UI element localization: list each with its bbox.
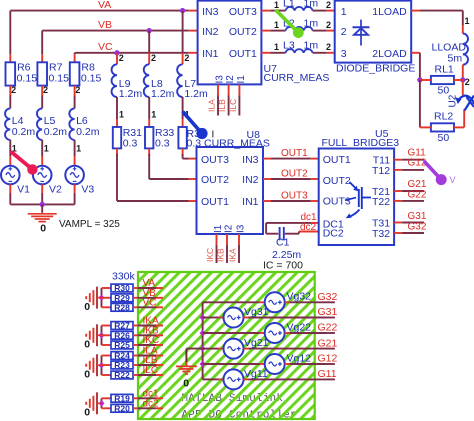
svg-text:2: 2 [465, 77, 470, 87]
svg-text:2: 2 [11, 85, 16, 95]
svg-text:OUT3: OUT3 [229, 6, 257, 18]
svg-text:3: 3 [341, 48, 347, 60]
svg-text:dc2: dc2 [143, 398, 160, 409]
svg-text:G12: G12 [318, 353, 338, 365]
svg-text:ILB: ILB [217, 99, 227, 112]
svg-text:I2: I2 [224, 224, 235, 233]
svg-text:Vg12: Vg12 [287, 352, 312, 364]
svg-text:R22: R22 [114, 370, 130, 380]
svg-text:IN2: IN2 [242, 174, 259, 186]
svg-text:R23: R23 [114, 360, 130, 370]
svg-text:G22: G22 [408, 190, 427, 201]
svg-text:1LOAD: 1LOAD [372, 6, 407, 18]
svg-text:0: 0 [84, 368, 90, 380]
svg-text:IN2: IN2 [202, 26, 219, 38]
svg-text:DC2: DC2 [323, 227, 344, 239]
svg-text:IN3: IN3 [242, 154, 259, 166]
svg-text:OUT1: OUT1 [201, 196, 229, 208]
svg-text:2: 2 [326, 42, 331, 52]
svg-text:IN3: IN3 [202, 6, 219, 18]
svg-text:0.2m: 0.2m [76, 126, 100, 138]
svg-text:1.2m: 1.2m [119, 88, 143, 100]
svg-text:FULL_BRIDGE3: FULL_BRIDGE3 [322, 137, 400, 149]
svg-text:2: 2 [341, 26, 347, 38]
svg-text:1: 1 [465, 16, 470, 26]
svg-text:0.15: 0.15 [81, 73, 102, 85]
svg-text:2: 2 [43, 85, 48, 95]
svg-text:V: V [450, 175, 456, 185]
svg-text:I2: I2 [225, 75, 236, 84]
svg-text:L3: L3 [283, 40, 295, 52]
svg-text:330k: 330k [112, 271, 136, 283]
svg-text:Vg31: Vg31 [244, 306, 269, 318]
svg-text:RL2: RL2 [434, 111, 453, 123]
svg-text:G21: G21 [318, 337, 338, 349]
svg-text:1.2m: 1.2m [184, 88, 208, 100]
svg-text:ILC: ILC [228, 99, 238, 112]
svg-text:T12: T12 [372, 165, 390, 177]
svg-text:OUT2: OUT2 [323, 175, 351, 187]
svg-text:1m: 1m [304, 18, 319, 30]
svg-text:OUT3: OUT3 [323, 196, 351, 208]
svg-text:V2: V2 [49, 184, 62, 196]
svg-text:1: 1 [119, 110, 124, 120]
svg-text:Vg32: Vg32 [287, 291, 312, 303]
svg-text:C1: C1 [276, 236, 290, 248]
svg-text:2: 2 [151, 53, 156, 63]
svg-text:OUT1: OUT1 [229, 48, 257, 60]
svg-text:2: 2 [326, 0, 331, 10]
svg-text:VAMPL = 325: VAMPL = 325 [59, 219, 120, 230]
svg-text:VA: VA [98, 0, 111, 11]
svg-text:1: 1 [44, 144, 49, 154]
svg-text:L1: L1 [283, 0, 295, 10]
svg-text:2: 2 [184, 53, 189, 63]
svg-text:T22: T22 [372, 196, 390, 208]
svg-text:50: 50 [438, 132, 450, 144]
svg-text:V1: V1 [17, 184, 30, 196]
svg-text:OUT2: OUT2 [229, 26, 257, 38]
svg-text:IKA: IKA [228, 248, 238, 262]
svg-text:DIODE_BRIDGE: DIODE_BRIDGE [336, 63, 415, 75]
svg-text:1.2m: 1.2m [151, 88, 175, 100]
svg-text:R25: R25 [114, 340, 130, 350]
svg-text:50: 50 [438, 85, 450, 97]
svg-text:OUT2: OUT2 [281, 168, 308, 179]
svg-text:2: 2 [119, 53, 124, 63]
svg-text:1: 1 [274, 20, 279, 30]
svg-text:R19: R19 [114, 393, 130, 403]
svg-text:OUT1: OUT1 [323, 154, 351, 166]
svg-text:I1: I1 [236, 75, 247, 84]
svg-text:OUT3: OUT3 [281, 190, 308, 201]
svg-text:G31: G31 [408, 211, 427, 222]
svg-text:R30: R30 [114, 283, 130, 293]
svg-text:R29: R29 [114, 293, 130, 303]
svg-text:Vg22: Vg22 [287, 321, 312, 333]
svg-text:0: 0 [84, 407, 90, 419]
svg-text:OUT1: OUT1 [281, 148, 308, 159]
svg-text:T32: T32 [372, 228, 390, 240]
svg-text:1: 1 [151, 110, 156, 120]
svg-text:G11: G11 [318, 368, 337, 380]
svg-text:dc2: dc2 [300, 222, 317, 233]
svg-text:CURR_MEAS: CURR_MEAS [204, 137, 270, 149]
svg-text:RL1: RL1 [435, 64, 454, 76]
svg-text:R26: R26 [114, 330, 130, 340]
svg-text:R24: R24 [114, 351, 130, 361]
svg-text:G32: G32 [408, 221, 427, 232]
svg-text:IKC: IKC [205, 248, 215, 262]
svg-text:R20: R20 [114, 403, 130, 413]
svg-text:V3: V3 [81, 184, 94, 196]
svg-text:IN1: IN1 [202, 48, 219, 60]
svg-text:2: 2 [75, 85, 80, 95]
svg-text:IKC: IKC [143, 335, 160, 346]
svg-text:G21: G21 [408, 179, 427, 190]
svg-text:1m: 1m [304, 0, 319, 10]
svg-text:G32: G32 [318, 291, 338, 303]
svg-text:CURR_MEAS: CURR_MEAS [264, 72, 330, 84]
svg-text:OUT2: OUT2 [201, 174, 229, 186]
svg-text:VB: VB [98, 19, 112, 31]
svg-text:0.2m: 0.2m [12, 126, 36, 138]
svg-text:U2: U2 [448, 94, 459, 107]
svg-text:1: 1 [76, 144, 81, 154]
svg-text:I3: I3 [215, 75, 226, 84]
svg-text:IKB: IKB [216, 248, 226, 262]
svg-text:ILC: ILC [143, 365, 159, 376]
svg-text:R27: R27 [114, 321, 130, 331]
svg-text:0: 0 [84, 301, 90, 313]
svg-text:0.15: 0.15 [49, 73, 70, 85]
svg-text:IC = 700: IC = 700 [263, 260, 303, 272]
svg-text:G22: G22 [318, 322, 338, 334]
svg-text:0: 0 [40, 223, 46, 235]
svg-text:1: 1 [274, 0, 279, 10]
svg-text:ILA: ILA [207, 99, 217, 112]
svg-text:VC: VC [143, 297, 157, 308]
svg-text:1: 1 [274, 42, 279, 52]
svg-text:Vg21: Vg21 [244, 337, 269, 349]
svg-text:VC: VC [98, 41, 113, 53]
svg-text:OUT3: OUT3 [201, 154, 229, 166]
svg-text:IN1: IN1 [242, 196, 259, 208]
svg-text:0: 0 [84, 338, 90, 350]
svg-text:0.2m: 0.2m [44, 126, 68, 138]
svg-text:R28: R28 [114, 302, 130, 312]
svg-text:Vg11: Vg11 [244, 368, 268, 380]
svg-text:0.3: 0.3 [123, 138, 138, 150]
svg-text:I3: I3 [236, 224, 247, 233]
svg-text:2LOAD: 2LOAD [372, 48, 407, 60]
svg-text:1m: 1m [304, 40, 319, 52]
svg-text:0.15: 0.15 [17, 73, 38, 85]
svg-text:G31: G31 [318, 306, 338, 318]
svg-text:0: 0 [183, 378, 189, 390]
svg-text:2: 2 [326, 20, 331, 30]
svg-text:0.3: 0.3 [155, 138, 170, 150]
svg-text:I1: I1 [213, 224, 224, 233]
svg-text:1: 1 [341, 6, 347, 18]
